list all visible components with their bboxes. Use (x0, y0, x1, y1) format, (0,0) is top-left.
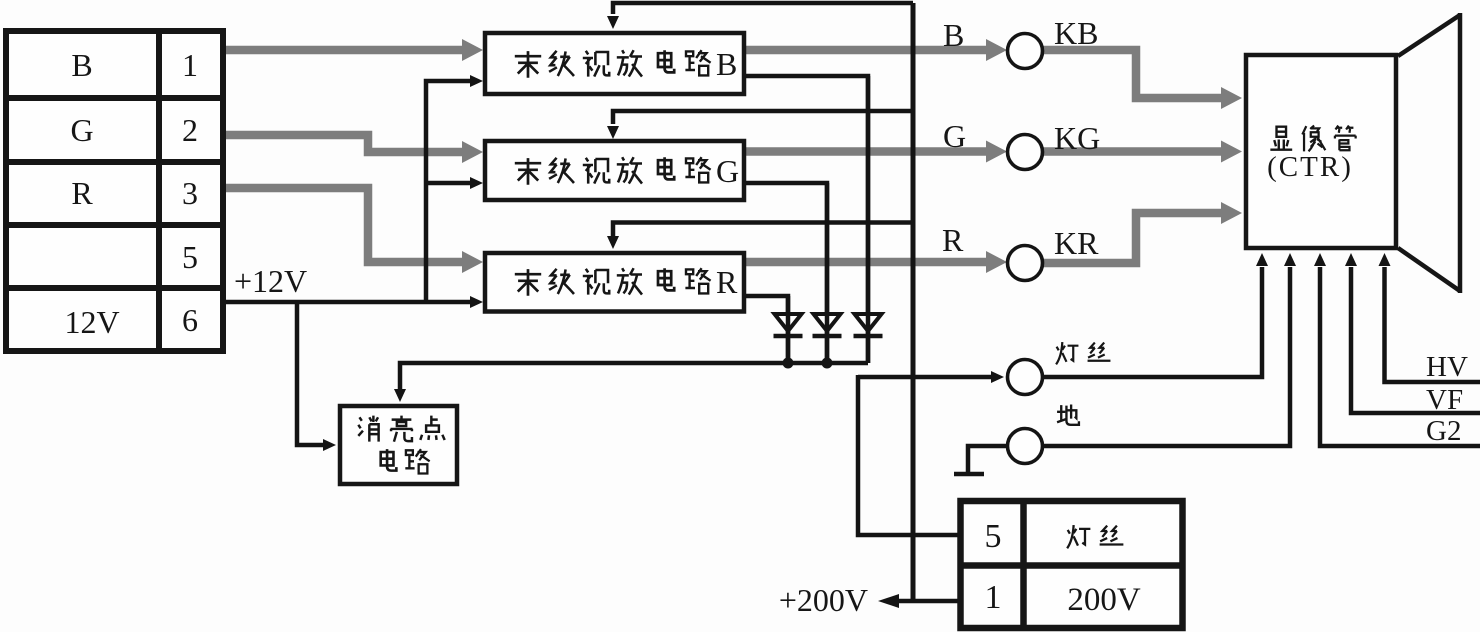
svg-text:G: G (943, 118, 966, 154)
svg-text:R: R (942, 222, 964, 258)
svg-text:B: B (943, 17, 964, 53)
svg-text:KB: KB (1054, 15, 1098, 51)
svg-text:+12V: +12V (234, 263, 307, 299)
svg-text:G: G (70, 112, 93, 148)
svg-text:G: G (716, 153, 739, 189)
svg-text:5: 5 (985, 518, 1002, 555)
svg-text:KR: KR (1054, 225, 1099, 261)
svg-text:+200V: +200V (779, 582, 868, 618)
svg-text:G2: G2 (1426, 415, 1461, 447)
svg-text:1: 1 (985, 579, 1002, 616)
svg-text:(CTR): (CTR) (1267, 151, 1353, 183)
svg-text:200V: 200V (1067, 582, 1141, 618)
svg-text:5: 5 (182, 239, 198, 275)
svg-text:B: B (716, 46, 737, 82)
svg-text:3: 3 (182, 175, 198, 211)
svg-text:KG: KG (1054, 120, 1100, 156)
svg-text:R: R (71, 175, 93, 211)
svg-text:12V: 12V (64, 304, 119, 340)
svg-text:VF: VF (1426, 384, 1463, 416)
svg-text:R: R (716, 264, 738, 300)
svg-text:B: B (71, 47, 92, 83)
svg-text:1: 1 (182, 47, 198, 83)
svg-text:2: 2 (182, 112, 198, 148)
svg-text:HV: HV (1426, 351, 1468, 383)
svg-text:6: 6 (182, 302, 198, 338)
